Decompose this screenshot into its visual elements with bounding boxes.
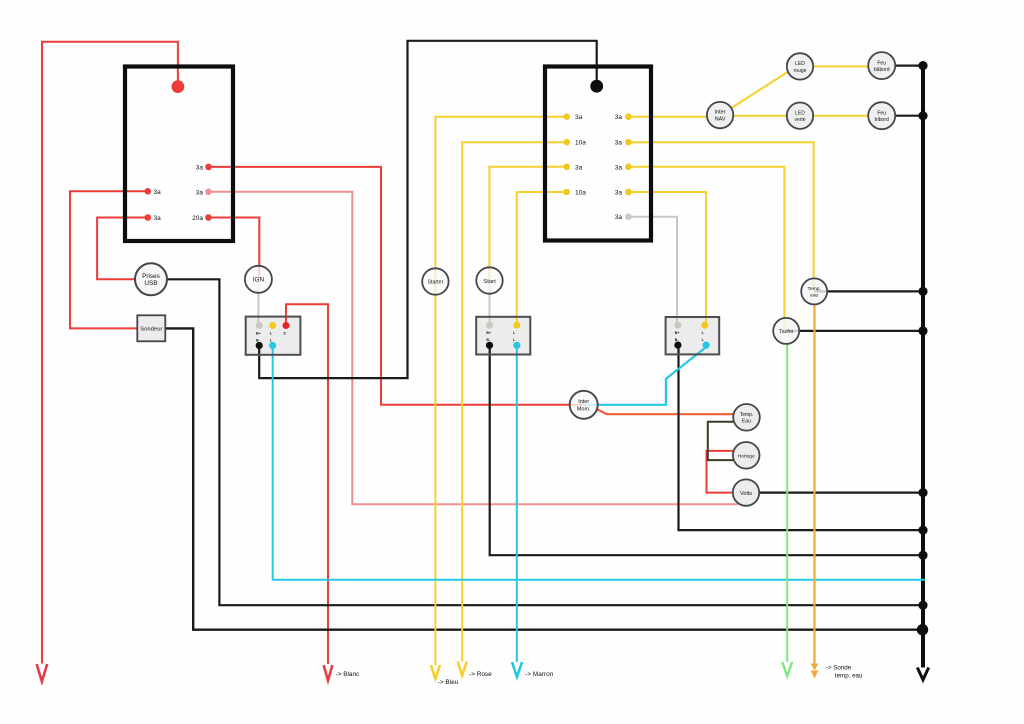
pin SW2 gray (486, 322, 493, 329)
svg-text:3a: 3a (154, 189, 162, 196)
pin FB2 3a R5 gray (625, 213, 632, 220)
svg-text:3a: 3a (615, 190, 623, 197)
pin FB2 3a L1 (563, 113, 570, 120)
junction Volts (918, 488, 927, 497)
wire gray F2-R5 to SW3 (631, 217, 677, 323)
pin FB1 3a R2 pink (205, 189, 212, 196)
svg-text:Sondeur: Sondeur (140, 327, 162, 333)
component LED verte (787, 103, 813, 129)
switch SW1 fill (246, 317, 301, 355)
svg-text:Eau: Eau (742, 418, 751, 424)
svg-text:Mom.: Mom. (577, 406, 591, 412)
arrow Marron head (512, 662, 522, 677)
wire orange Temp.eau sender to Sonde (813, 304, 815, 664)
wire gray Start to SW2 (489, 282, 491, 323)
svg-text:3a: 3a (196, 189, 204, 196)
svg-text:Feu: Feu (877, 111, 886, 117)
switch SW2 fill (476, 317, 530, 355)
pin SW1 yellow (269, 322, 276, 329)
wire yellow F2-L3 to Start (489, 167, 564, 281)
pin FB1 3a L2 (145, 214, 152, 221)
wire black Temp.eau sender return (814, 290, 921, 292)
svg-text:B+: B+ (675, 331, 680, 335)
svg-text:-> Marron: -> Marron (525, 671, 553, 678)
switch SW3 fill (666, 317, 720, 354)
svg-text:3a: 3a (575, 164, 583, 171)
svg-text:20a: 20a (192, 215, 203, 222)
wire black Sondeur return (165, 328, 921, 629)
component Start (476, 267, 502, 293)
wire fuse F-3a-L2 to Prises USB (97, 218, 151, 280)
wire yellow F2-L2 to Rose arrow (462, 142, 564, 661)
switch SW1 (246, 317, 301, 355)
wire yellow F2-L1 through Starter to Bleu arrow (435, 117, 564, 665)
pin SW1 red (283, 322, 290, 329)
wire pink F-3a-R2 to Volts (210, 192, 738, 505)
component Sondeur (137, 315, 165, 341)
wire red battery bus left (42, 42, 178, 664)
pin SW1 gray (256, 322, 263, 329)
component LED rouge (787, 53, 813, 79)
fuse box FB1 fill (123, 65, 235, 244)
svg-text:Volts: Volts (740, 491, 752, 497)
svg-text:-> Bleu: -> Bleu (438, 679, 459, 686)
pin FB2 10a L2 (563, 139, 570, 146)
svg-text:-> Blanc: -> Blanc (336, 671, 360, 678)
svg-text:Feu: Feu (877, 60, 886, 66)
svg-text:eau: eau (810, 294, 818, 299)
component Prises USB (135, 263, 167, 295)
arrow orange Sonde head (811, 664, 819, 671)
pin FB2 3a R3 (625, 164, 632, 171)
junction Feu tribord (918, 111, 927, 120)
wire black Feu tribord return (882, 115, 922, 117)
junction Prises USB (918, 601, 927, 610)
wire fuse F-3a-R1 to Inter Mom (210, 167, 584, 405)
wire yellow F2-R3 to Tacho (631, 167, 784, 330)
wire yellow LED verte to Feu tribord (800, 115, 881, 117)
arrow battery bus left head (37, 664, 48, 682)
pin SW2 yellow (513, 322, 520, 329)
wire cyan SW1 to ground bus (273, 347, 925, 580)
terminal FB2 battery dot (590, 80, 603, 93)
component Horloge (733, 442, 760, 469)
wire gray IGN to SW1 (257, 281, 259, 323)
wire orange-red Inter Mom to Temp.Eau gauge (596, 409, 747, 415)
wire yellow F2-L4 to SW2 (517, 192, 564, 323)
svg-text:B+: B+ (256, 332, 261, 336)
component Feu babord (868, 52, 895, 79)
junction SW3 (918, 526, 927, 535)
pin SW1 cyan (269, 342, 276, 349)
svg-text:Temp.: Temp. (808, 286, 821, 292)
wire cyan SW3 to Inter Mom (584, 347, 707, 405)
wire dark olive Temp.Eau to Horloge (708, 422, 734, 460)
fuse box FB1 (125, 67, 233, 242)
svg-text:3a: 3a (615, 214, 623, 221)
pin FB1 3a R1 (205, 164, 212, 171)
pin SW2 cyan (513, 342, 520, 349)
wire yellow LED rouge to Feu babord (800, 65, 881, 67)
wire red switch SW1 pin S to Blanc arrow (286, 304, 328, 664)
wire yellow F2-R4 to SW3 (631, 192, 706, 323)
svg-text:Horloge: Horloge (738, 453, 755, 459)
pin FB2 3a L3 (563, 164, 570, 171)
svg-text:Inter: Inter (578, 399, 589, 405)
wire black Feu babord return (882, 64, 922, 66)
junction Temp.eau sender (918, 287, 927, 296)
wire fuse F-20a to IGN (210, 218, 259, 280)
svg-text:rouge: rouge (794, 68, 807, 74)
pin SW3 black (674, 342, 681, 349)
pin FB2 3a R1 (625, 113, 632, 120)
svg-text:Inter: Inter (715, 110, 726, 116)
wire black ground bus right (921, 66, 925, 668)
svg-text:LED: LED (795, 111, 805, 117)
junction Feu babord (918, 61, 927, 70)
wire green Tacho to bottom (786, 343, 788, 662)
svg-text:10a: 10a (575, 140, 586, 147)
svg-text:3a: 3a (575, 114, 583, 121)
pin SW1 black (256, 342, 263, 349)
svg-text:B+: B+ (486, 331, 491, 335)
svg-text:3a: 3a (196, 164, 204, 171)
arrow Bleu head (431, 665, 440, 679)
svg-text:3a: 3a (154, 215, 162, 222)
wire black Prises USB return (151, 279, 922, 605)
wire fuse F-3a-L1 to Sondeur (70, 191, 146, 328)
svg-text:LED: LED (795, 61, 805, 67)
junction Tacho (918, 326, 927, 335)
fuse box FB2 fill (543, 65, 653, 243)
svg-text:Starter: Starter (427, 280, 443, 286)
svg-text:3a: 3a (615, 140, 623, 147)
pin FB2 3a R4 (625, 189, 632, 196)
pin FB1 20a R3 (205, 214, 212, 221)
svg-text:verte: verte (794, 117, 805, 123)
svg-text:NAV: NAV (715, 117, 726, 123)
arrow Blanc head (324, 665, 333, 681)
svg-text:3a: 3a (615, 164, 623, 171)
svg-text:-> Sonde: -> Sonde (826, 665, 852, 672)
component Inter NAV (707, 102, 733, 128)
pin SW2 black (486, 342, 493, 349)
fuse box FB2 (545, 67, 651, 241)
component Temp.Eau gauge (733, 404, 760, 431)
pin FB2 3a R2 (625, 139, 632, 146)
junction Sondeur (917, 624, 928, 635)
svg-text:USB: USB (144, 280, 157, 287)
component Inter Mom (570, 391, 598, 419)
wire black Tacho return (786, 330, 921, 332)
arrow Rose head (458, 662, 467, 676)
svg-text:3a: 3a (615, 114, 623, 121)
wire black SW2 return (490, 347, 922, 555)
component Tacho (773, 318, 799, 344)
svg-text:-> Rose: -> Rose (469, 671, 492, 678)
terminal FB1 battery dot (172, 80, 185, 93)
wire yellow F2-R1 to Inter NAV (631, 116, 720, 118)
svg-text:Prises: Prises (142, 273, 160, 280)
WIRES-LAYER (37, 41, 929, 682)
component Volts (733, 479, 759, 505)
component Feu tribord (868, 102, 895, 129)
svg-text:10a: 10a (575, 190, 586, 197)
pin SW3 cyan (703, 342, 710, 349)
pin FB2 10a L4 (563, 189, 570, 196)
svg-text:Start: Start (483, 279, 496, 285)
arrow green head (782, 662, 792, 676)
wire black SW3 return (679, 347, 922, 530)
switch SW3 (666, 317, 720, 354)
component IGN (245, 266, 272, 293)
component Temp.eau sender (801, 278, 827, 304)
junction SW2 (918, 551, 927, 560)
svg-text:Tacho: Tacho (779, 329, 793, 335)
switch SW2 (476, 317, 530, 355)
wire yellow Inter NAV to LED verte (720, 115, 800, 117)
pin FB1 3a L1 (145, 188, 152, 195)
wire cyan SW2 to Marron arrow (516, 347, 518, 662)
wire yellow Inter NAV to LED rouge diagonal (726, 69, 793, 112)
svg-text:bâbord: bâbord (874, 67, 890, 73)
svg-text:temp. eau: temp. eau (835, 673, 863, 680)
wire red Horloge to Volts (707, 451, 734, 493)
wire yellow F2-R2 to Temp.eau sender (631, 142, 814, 291)
wire black fusebox2 feed to SW1 (259, 41, 597, 378)
component Starter (422, 268, 448, 294)
wire black Volts return (746, 492, 922, 494)
arrow ground bus head (917, 668, 928, 680)
pin SW3 gray (674, 322, 681, 329)
svg-text:tribord: tribord (875, 117, 889, 123)
svg-text:IGN: IGN (253, 277, 265, 284)
pin SW3 yellow (701, 322, 708, 329)
svg-text:Temp.: Temp. (740, 412, 754, 418)
